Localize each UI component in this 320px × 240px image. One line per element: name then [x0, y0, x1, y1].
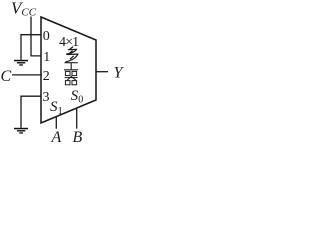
pin S1 label [50, 99, 63, 117]
svg-text:C: C [1, 68, 12, 85]
svg-text:A: A [51, 129, 62, 146]
svg-text:4×1: 4×1 [59, 35, 79, 50]
svg-text:CC: CC [21, 6, 36, 18]
wire VCC riser to input 1 [31, 17, 41, 56]
svg-text:2: 2 [43, 69, 50, 84]
wire input 0 net to ground riser [21, 35, 41, 60]
glyph QI (device) [65, 71, 78, 84]
ground G1 [14, 60, 28, 66]
wire select S0 from B [76, 108, 78, 129]
pin S0 label [71, 88, 84, 106]
svg-text:Y: Y [114, 65, 125, 82]
svg-text:3: 3 [43, 90, 50, 105]
power VCC label [11, 0, 37, 18]
glyph DUO (multi) [66, 47, 78, 62]
wire output Y [96, 71, 108, 73]
glyph GONG (work) [64, 63, 78, 70]
svg-text:1: 1 [58, 106, 63, 117]
mux body U1 (4x1 multiplexer trapezoid) [41, 17, 96, 123]
svg-text:B: B [73, 129, 83, 146]
svg-text:1: 1 [43, 50, 50, 65]
wire input 3 net to ground riser [21, 96, 41, 128]
wire select S1 from A [55, 117, 57, 129]
ground G2 [14, 128, 28, 134]
svg-text:0: 0 [78, 95, 83, 106]
svg-text:0: 0 [43, 29, 50, 44]
wire C to input 2 [12, 74, 41, 76]
